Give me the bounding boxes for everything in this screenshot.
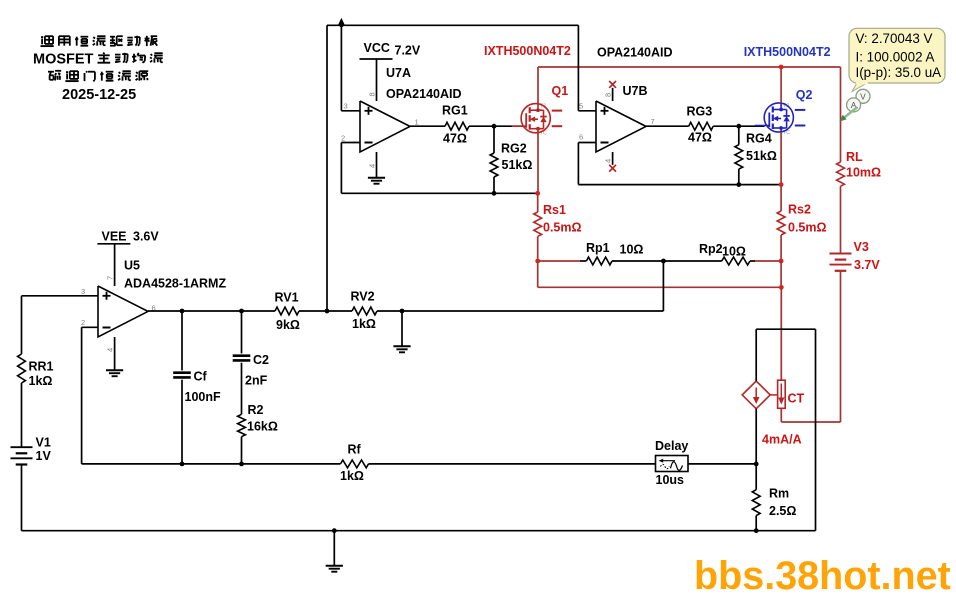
svg-text:RV1: RV1 xyxy=(275,291,299,305)
svg-text:1kΩ: 1kΩ xyxy=(340,469,364,483)
measurement probe circles xyxy=(839,89,870,121)
svg-text:MOSFET: MOSFET xyxy=(33,52,94,68)
svg-text:9kΩ: 9kΩ xyxy=(276,318,300,332)
power rail VEE xyxy=(97,243,130,245)
resistor RG1 47ohm xyxy=(445,122,469,130)
wire U7A output to RG1 xyxy=(410,125,445,127)
node Q2 source junction xyxy=(779,182,784,187)
svg-text:8: 8 xyxy=(368,92,377,96)
transistor Q1 IXTH500N04T2 xyxy=(512,104,563,133)
node Q1 source / U7A feedback junction xyxy=(535,191,540,196)
resistor RR1 1kohm xyxy=(18,354,26,383)
node Rs1 bottom junction xyxy=(535,259,540,264)
svg-text:3.7V: 3.7V xyxy=(854,258,880,272)
op-amp U7B OPA2140AID xyxy=(596,101,646,152)
svg-text:RR1: RR1 xyxy=(29,360,54,374)
svg-text:4: 4 xyxy=(368,164,377,168)
resistor Rp2 10ohm xyxy=(722,257,750,265)
svg-text:V: 2.70043 V: V: 2.70043 V xyxy=(856,31,933,46)
wire V1 bottom to ground bus xyxy=(21,465,23,531)
node RV2 ground junction xyxy=(400,309,405,314)
node Q2 drain junction xyxy=(779,65,784,70)
wire top rail down to U7B noninverting input xyxy=(577,25,579,111)
svg-text:OPA2140AID: OPA2140AID xyxy=(597,46,673,60)
svg-text:bbs.38hot.net: bbs.38hot.net xyxy=(694,554,951,593)
svg-text:1V: 1V xyxy=(36,449,52,463)
node arrow at top rail junction xyxy=(338,18,344,25)
svg-text:4: 4 xyxy=(604,159,613,163)
resistor Rp1 10ohm xyxy=(586,257,612,265)
svg-text:VEE: VEE xyxy=(102,230,127,244)
svg-text:2: 2 xyxy=(341,134,345,143)
capacitor Cf 100nF xyxy=(181,311,183,370)
svg-text:3.6V: 3.6V xyxy=(133,230,159,244)
svg-text:1kΩ: 1kΩ xyxy=(29,374,53,388)
op-amp U5 ADA4528-1ARMZ xyxy=(98,286,148,337)
current sensor CT rect xyxy=(778,380,786,408)
svg-text:4: 4 xyxy=(106,348,115,352)
node RG4 top junction xyxy=(736,124,741,129)
svg-text:RV2: RV2 xyxy=(351,290,375,304)
ground under U7A xyxy=(376,152,378,177)
svg-text:10mΩ: 10mΩ xyxy=(846,166,881,180)
resistor RG3 47ohm xyxy=(689,122,714,130)
dependent current source diamond of CT xyxy=(742,381,770,409)
node Rs2 bottom / Rp2 junction xyxy=(779,259,784,264)
wire right rail down to RL xyxy=(840,67,842,162)
wire Rs2 node to red bus xyxy=(780,261,782,287)
svg-text:Q1: Q1 xyxy=(552,84,569,98)
wire U5 inverting input down xyxy=(82,326,98,328)
wire Rp1 to Rp2 xyxy=(612,260,722,262)
svg-text:2nF: 2nF xyxy=(245,374,268,388)
capacitor C2 2nF xyxy=(241,311,243,353)
svg-text:5: 5 xyxy=(579,102,583,111)
svg-text:8: 8 xyxy=(604,93,613,97)
resistor Rs1 0.5mohm xyxy=(537,193,539,212)
svg-text:ADA4528-1ARMZ: ADA4528-1ARMZ xyxy=(124,277,226,291)
wire CT output loop right edge xyxy=(815,329,817,531)
svg-text:I: 100.0002 A: I: 100.0002 A xyxy=(856,49,935,64)
wire feedback bus to Rf xyxy=(82,463,341,465)
wire Q2 drain to top rail xyxy=(780,67,782,103)
resistor RG2 51kohm xyxy=(493,126,495,153)
transistor Q2 IXTH500N04T2 xyxy=(755,103,806,132)
delay block 10us xyxy=(656,456,689,472)
svg-text:2: 2 xyxy=(81,318,85,327)
svg-text:U5: U5 xyxy=(124,259,140,273)
svg-text:CT: CT xyxy=(788,392,805,406)
node ground stub junction xyxy=(332,528,337,533)
svg-text:V3: V3 xyxy=(854,240,869,254)
wire CT output loop top xyxy=(755,329,757,381)
resistor Rf 1kohm xyxy=(341,460,369,468)
node Delay junction xyxy=(754,462,759,467)
svg-text:6: 6 xyxy=(579,133,583,142)
wire feedback to Q2 source node xyxy=(739,184,781,186)
resistor Rm 2.5ohm xyxy=(752,490,760,516)
wire V3 bottom down and left to CT xyxy=(840,271,842,422)
svg-text:16kΩ: 16kΩ xyxy=(247,420,278,434)
node RG2 bottom junction xyxy=(492,191,497,196)
node red bus right junction xyxy=(779,285,784,290)
wire left tall vertical x=327 from top rail down to RV1/RV2 node xyxy=(326,25,328,311)
wire Q1 drain up to top red rail xyxy=(537,67,539,104)
battery V1 1V xyxy=(11,446,33,448)
node RG4 bottom junction xyxy=(736,182,741,187)
svg-text:3: 3 xyxy=(344,102,348,111)
wire U7A inverting input feedback xyxy=(341,142,360,144)
node RG2 top junction xyxy=(492,124,497,129)
svg-text:7: 7 xyxy=(651,117,655,126)
svg-text:2.5Ω: 2.5Ω xyxy=(769,504,796,518)
wire lower red bus xyxy=(538,286,782,288)
svg-text:Delay: Delay xyxy=(655,439,688,453)
svg-text:47Ω: 47Ω xyxy=(688,131,712,145)
svg-text:R2: R2 xyxy=(248,403,264,417)
wire top rail from left vertical to U7B input xyxy=(327,24,578,26)
measurement tooltip box xyxy=(849,28,945,91)
svg-text:IXTH500N04T2: IXTH500N04T2 xyxy=(744,45,831,59)
wire red bus down to CT sense xyxy=(780,287,782,380)
resistor R2 16kohm xyxy=(238,414,246,436)
resistor RG4 51kohm xyxy=(738,126,740,145)
svg-text:10Ω: 10Ω xyxy=(620,243,644,257)
svg-text:Rs1: Rs1 xyxy=(543,203,566,217)
resistor Rs2 0.5mohm xyxy=(780,185,782,211)
wire U5 output xyxy=(148,310,275,312)
svg-text:0.5mΩ: 0.5mΩ xyxy=(788,221,827,235)
wire Rs1 node down to lower red bus xyxy=(537,261,539,287)
svg-text:TC: TC xyxy=(540,131,547,137)
svg-text:RG3: RG3 xyxy=(687,105,713,119)
wire Q1 source down xyxy=(537,133,539,194)
svg-text:IXTH500N04T2: IXTH500N04T2 xyxy=(484,44,571,58)
svg-text:51kΩ: 51kΩ xyxy=(746,149,777,163)
svg-text:C2: C2 xyxy=(253,353,269,367)
ground symbol bottom xyxy=(333,531,335,566)
node C2 top junction xyxy=(239,309,244,314)
svg-text:1kΩ: 1kΩ xyxy=(352,317,376,331)
svg-text:2025-12-25: 2025-12-25 xyxy=(62,87,136,103)
svg-text:RG4: RG4 xyxy=(746,132,772,146)
svg-text:Q2: Q2 xyxy=(796,88,813,102)
node left vertical junction xyxy=(325,309,330,314)
svg-text:1: 1 xyxy=(415,118,419,127)
svg-text:TC: TC xyxy=(783,130,790,136)
power rail VCC xyxy=(360,58,393,60)
wire bottom ground bus xyxy=(22,530,816,532)
svg-text:Rp2: Rp2 xyxy=(699,242,723,256)
wire Q2 source down to feedback node xyxy=(780,132,782,185)
svg-text:4mA/A: 4mA/A xyxy=(762,433,802,447)
U7B power pin stubs with X marks xyxy=(612,88,614,101)
wire Delay to CT loop xyxy=(688,463,756,465)
wire U7B output to RG3 xyxy=(646,125,689,127)
wire RG3 to Q2 gate xyxy=(713,125,764,127)
resistor RV2 1kohm xyxy=(352,307,377,315)
wire RV1 to RV2 xyxy=(299,310,352,312)
svg-text:V: V xyxy=(860,92,866,102)
wire U7A noninverting input vertical xyxy=(340,25,342,111)
title text line3 磁通门恒流源 xyxy=(48,71,54,73)
wire RL to V3 xyxy=(840,186,842,253)
svg-text:RG1: RG1 xyxy=(442,104,468,118)
svg-text:RG2: RG2 xyxy=(501,142,527,156)
wire RG1 to Q1 gate xyxy=(469,125,522,127)
wire CT diamond bottom to Rm xyxy=(755,409,757,490)
wire U5 noninverting input to RR1 xyxy=(22,295,99,297)
svg-text:Rp1: Rp1 xyxy=(586,241,610,255)
svg-text:0.5mΩ: 0.5mΩ xyxy=(543,221,582,235)
resistor RL 10mohm xyxy=(837,162,845,186)
svg-text:51kΩ: 51kΩ xyxy=(502,158,533,172)
op-amp U7A OPA2140AID xyxy=(360,101,410,152)
wire U7B inverting feedback xyxy=(578,142,596,144)
svg-text:TJ: TJ xyxy=(540,104,546,110)
wire Rp2 to Rs2 node xyxy=(750,260,755,262)
svg-text:OPA2140AID: OPA2140AID xyxy=(386,87,462,101)
wire RV2 to Rp junction vertical xyxy=(377,310,663,312)
svg-text:U7A: U7A xyxy=(386,66,411,80)
wire from RV2 net up to Rp junction xyxy=(662,261,664,311)
svg-text:U7B: U7B xyxy=(623,84,648,98)
svg-text:Rf: Rf xyxy=(348,443,362,457)
wire CT diamond to sense stub xyxy=(770,394,777,396)
svg-text:3: 3 xyxy=(81,287,85,296)
resistor RV1 9kohm xyxy=(275,307,299,315)
node Rm bottom junction xyxy=(754,528,759,533)
svg-text:I(p-p): 35.0 uA: I(p-p): 35.0 uA xyxy=(856,65,942,80)
node Rp1/Rp2 RV2 junction xyxy=(661,259,666,264)
svg-text:7: 7 xyxy=(106,276,115,280)
ground stub right of RV2 xyxy=(401,311,403,346)
svg-text:7.2V: 7.2V xyxy=(395,44,421,58)
svg-text:Cf: Cf xyxy=(194,370,208,384)
svg-text:Rs2: Rs2 xyxy=(788,203,811,217)
node Cf top junction xyxy=(180,309,185,314)
svg-text:10us: 10us xyxy=(656,473,685,487)
node Cf bottom junction xyxy=(180,462,185,467)
title text line1 通用恒流驱动板 xyxy=(41,36,43,38)
svg-text:TJ: TJ xyxy=(783,103,789,109)
ground under U5 xyxy=(114,337,116,370)
svg-text:47Ω: 47Ω xyxy=(443,132,467,146)
svg-text:VCC: VCC xyxy=(364,41,390,55)
wire Rs1 node to Rp1 xyxy=(538,260,580,262)
wire top red rail to RL corner xyxy=(538,66,841,68)
wire Rf to Delay xyxy=(369,463,656,465)
svg-text:V1: V1 xyxy=(36,436,51,450)
svg-text:100nF: 100nF xyxy=(185,390,221,404)
battery V3 3.7V xyxy=(830,253,852,255)
node R2 bottom junction xyxy=(239,462,244,467)
svg-text:10Ω: 10Ω xyxy=(722,245,746,259)
svg-text:Rm: Rm xyxy=(769,487,789,501)
svg-text:RL: RL xyxy=(846,150,863,164)
